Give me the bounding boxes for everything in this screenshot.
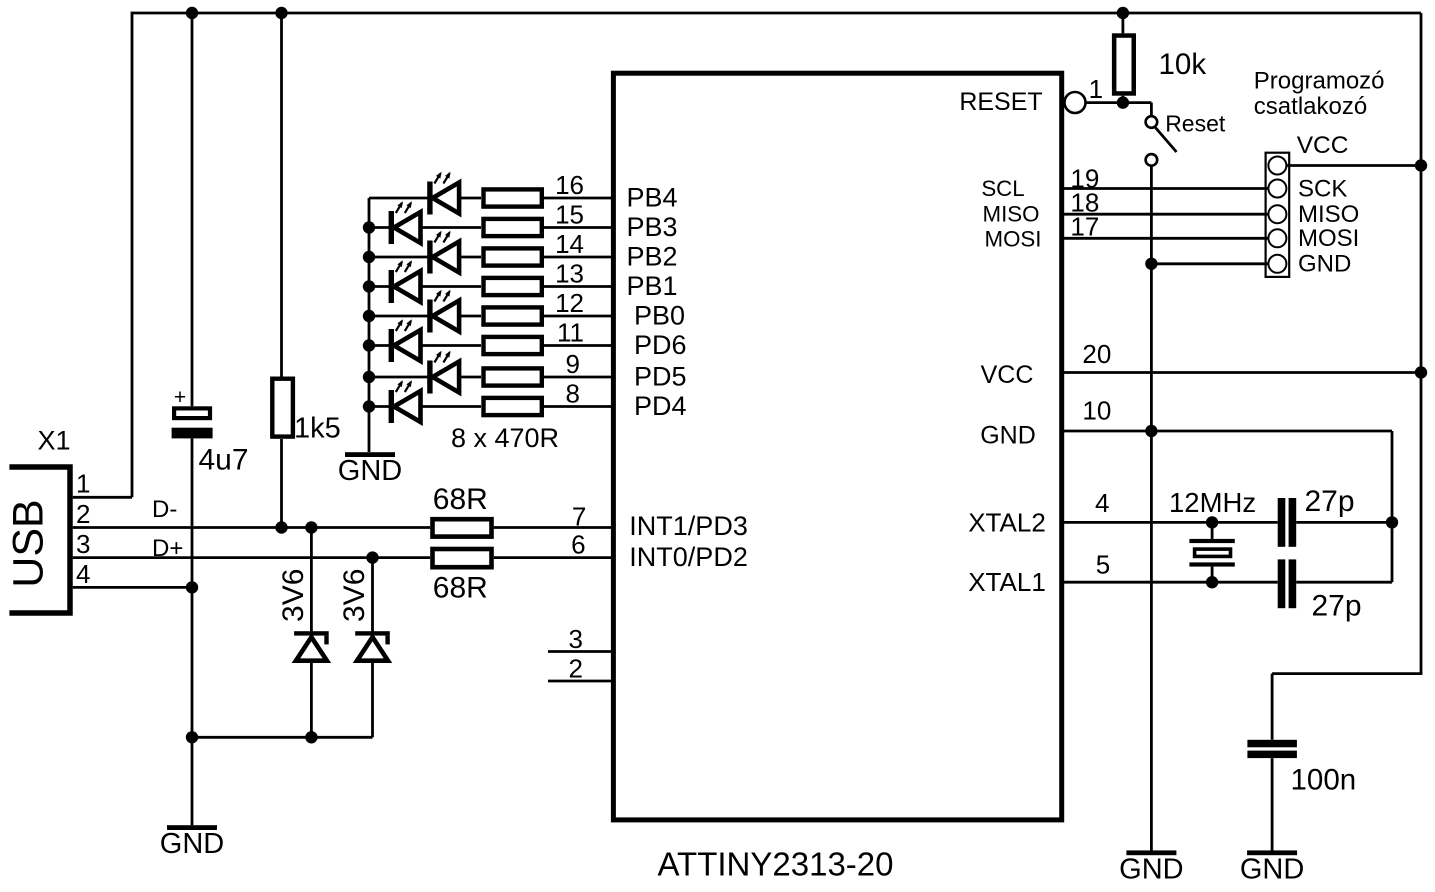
svg-text:VCC: VCC <box>1297 132 1349 159</box>
svg-text:VCC: VCC <box>981 361 1034 389</box>
svg-text:MISO: MISO <box>1298 201 1359 228</box>
svg-text:2: 2 <box>569 654 583 684</box>
svg-text:20: 20 <box>1082 339 1111 369</box>
svg-text:MISO: MISO <box>983 201 1040 226</box>
svg-text:D-: D- <box>152 496 177 523</box>
svg-text:Reset: Reset <box>1165 110 1226 136</box>
svg-text:68R: 68R <box>433 483 488 516</box>
svg-text:SCK: SCK <box>1298 175 1347 202</box>
svg-text:PB2: PB2 <box>627 241 678 271</box>
svg-text:INT1/PD3: INT1/PD3 <box>629 511 748 541</box>
svg-text:PD6: PD6 <box>634 330 687 360</box>
svg-text:GND: GND <box>160 828 224 860</box>
svg-text:3V6: 3V6 <box>277 569 310 622</box>
svg-text:PB1: PB1 <box>627 271 678 301</box>
svg-text:PD5: PD5 <box>634 361 687 391</box>
svg-text:GND: GND <box>1298 251 1351 278</box>
svg-text:12: 12 <box>555 288 584 318</box>
svg-text:27p: 27p <box>1312 590 1362 623</box>
svg-text:D+: D+ <box>152 535 183 562</box>
svg-text:GND: GND <box>980 421 1036 449</box>
svg-text:15: 15 <box>555 200 584 230</box>
svg-text:GND: GND <box>338 455 402 487</box>
svg-text:14: 14 <box>555 229 584 259</box>
svg-text:5: 5 <box>1096 549 1110 579</box>
svg-text:6: 6 <box>571 530 585 560</box>
svg-text:XTAL2: XTAL2 <box>968 507 1046 537</box>
svg-text:9: 9 <box>566 349 580 379</box>
svg-text:MOSI: MOSI <box>985 227 1042 252</box>
svg-text:4: 4 <box>1095 488 1109 518</box>
svg-text:27p: 27p <box>1305 485 1355 518</box>
svg-text:12MHz: 12MHz <box>1169 487 1256 518</box>
svg-text:GND: GND <box>1240 853 1304 885</box>
svg-text:1: 1 <box>76 469 90 499</box>
svg-text:+: + <box>174 386 186 409</box>
svg-text:1: 1 <box>1089 74 1103 104</box>
svg-text:8: 8 <box>566 379 580 409</box>
svg-text:PB3: PB3 <box>627 212 678 242</box>
svg-text:2: 2 <box>76 499 90 529</box>
svg-text:100n: 100n <box>1291 763 1357 796</box>
svg-text:PD4: PD4 <box>634 391 687 421</box>
svg-text:11: 11 <box>557 318 584 348</box>
svg-text:csatlakozó: csatlakozó <box>1254 93 1367 120</box>
svg-text:3: 3 <box>569 624 583 654</box>
svg-text:SCL: SCL <box>981 176 1024 201</box>
svg-text:8 x 470R: 8 x 470R <box>451 423 559 453</box>
svg-text:4: 4 <box>76 559 90 589</box>
svg-text:3: 3 <box>76 529 90 559</box>
svg-text:USB: USB <box>4 499 52 587</box>
svg-text:4u7: 4u7 <box>199 444 249 477</box>
svg-text:INT0/PD2: INT0/PD2 <box>629 542 748 572</box>
svg-text:10: 10 <box>1082 396 1111 426</box>
svg-text:3V6: 3V6 <box>338 569 371 622</box>
svg-text:68R: 68R <box>433 572 488 605</box>
svg-text:ATTINY2313-20: ATTINY2313-20 <box>658 846 894 883</box>
svg-text:RESET: RESET <box>959 88 1042 116</box>
svg-text:7: 7 <box>572 502 586 532</box>
svg-text:GND: GND <box>1119 853 1183 885</box>
svg-text:17: 17 <box>1070 212 1099 242</box>
svg-text:X1: X1 <box>38 426 71 456</box>
svg-text:XTAL1: XTAL1 <box>968 567 1046 597</box>
svg-text:1k5: 1k5 <box>294 412 341 444</box>
svg-text:PB4: PB4 <box>627 182 678 212</box>
svg-text:MOSI: MOSI <box>1298 225 1359 252</box>
svg-text:PB0: PB0 <box>634 300 685 330</box>
svg-text:13: 13 <box>555 259 584 289</box>
svg-text:10k: 10k <box>1159 48 1207 81</box>
svg-text:16: 16 <box>555 170 584 200</box>
svg-text:Programozó: Programozó <box>1254 67 1385 94</box>
